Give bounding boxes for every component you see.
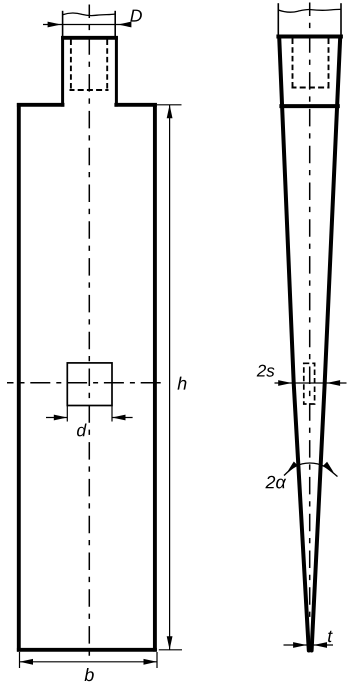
dimension d right arrowhead <box>112 415 126 421</box>
dimension D left arrowhead <box>48 22 62 28</box>
broken-end left thin edge <box>62 11 64 37</box>
vertical centerline right view <box>309 3 311 619</box>
label 2alpha <box>265 476 286 489</box>
broken-end right thin edge right view <box>340 3 342 36</box>
dimension 2s line <box>275 382 347 384</box>
dimension D line <box>43 24 129 26</box>
label d <box>77 424 87 437</box>
horizontal centerline left view <box>7 382 163 384</box>
angle 2alpha arc with leaders <box>284 463 338 477</box>
hidden hole bottom dashed line <box>70 89 109 91</box>
label t <box>328 631 333 643</box>
body bottom edge <box>17 648 157 652</box>
body left edge <box>17 103 21 652</box>
taper left wall <box>279 37 309 651</box>
left shoulder <box>17 103 65 107</box>
dimension D right arrowhead <box>118 22 131 28</box>
h extension line bottom <box>159 649 182 651</box>
right shoulder <box>114 103 156 107</box>
body right edge <box>153 103 157 652</box>
square hole d outline <box>67 363 112 406</box>
hidden hole left dashed line right view <box>292 39 294 88</box>
dimension d line right tail <box>112 417 133 419</box>
dimension t left arrowhead <box>293 642 307 648</box>
dimension h line <box>169 105 171 650</box>
angle 2alpha left arrowhead <box>287 462 298 472</box>
broken-end left thin edge right view <box>277 3 279 36</box>
dimension t right arrowhead <box>314 642 328 648</box>
neck left edge <box>61 36 64 107</box>
hidden hole bottom dashed line right view <box>292 87 330 89</box>
dimension b left arrowhead <box>20 659 34 665</box>
dimension b right arrowhead <box>144 659 158 665</box>
dimension 2s right arrowhead <box>327 380 341 386</box>
neck right edge <box>115 36 118 107</box>
dimension h bottom arrowhead <box>167 636 173 650</box>
label D <box>130 10 142 22</box>
dimension t line right tail <box>313 644 333 646</box>
b extension line right <box>156 652 158 668</box>
top bar right view <box>276 35 343 39</box>
dimension h top arrowhead <box>167 105 173 119</box>
d extension line right <box>111 406 113 422</box>
hidden hole right dashed line <box>106 40 108 91</box>
vertical centerline left view <box>88 5 90 659</box>
label 2s <box>257 365 275 377</box>
broken-end right thin edge <box>114 11 116 37</box>
hidden hole left dashed line <box>70 40 72 91</box>
dimension 2s left arrowhead <box>278 380 292 386</box>
label h <box>178 377 187 390</box>
angle 2alpha right arrowhead <box>323 462 334 472</box>
break wavy line <box>63 13 116 16</box>
dimension t line left tail <box>284 644 307 646</box>
hidden square hole dashed rect right view <box>304 363 315 404</box>
dimension d line left tail <box>46 417 67 419</box>
dimension b line <box>20 661 158 663</box>
label b <box>85 668 94 681</box>
h extension line top <box>157 104 182 106</box>
dimension d left arrowhead <box>54 415 68 421</box>
hidden hole right dashed line right view <box>328 39 330 88</box>
break wavy line right view <box>278 9 341 12</box>
taper right wall <box>312 37 341 651</box>
d extension line left <box>66 406 68 422</box>
neck top bar <box>61 36 118 40</box>
b extension line left <box>19 652 21 668</box>
shoulder bar right view <box>279 104 339 108</box>
